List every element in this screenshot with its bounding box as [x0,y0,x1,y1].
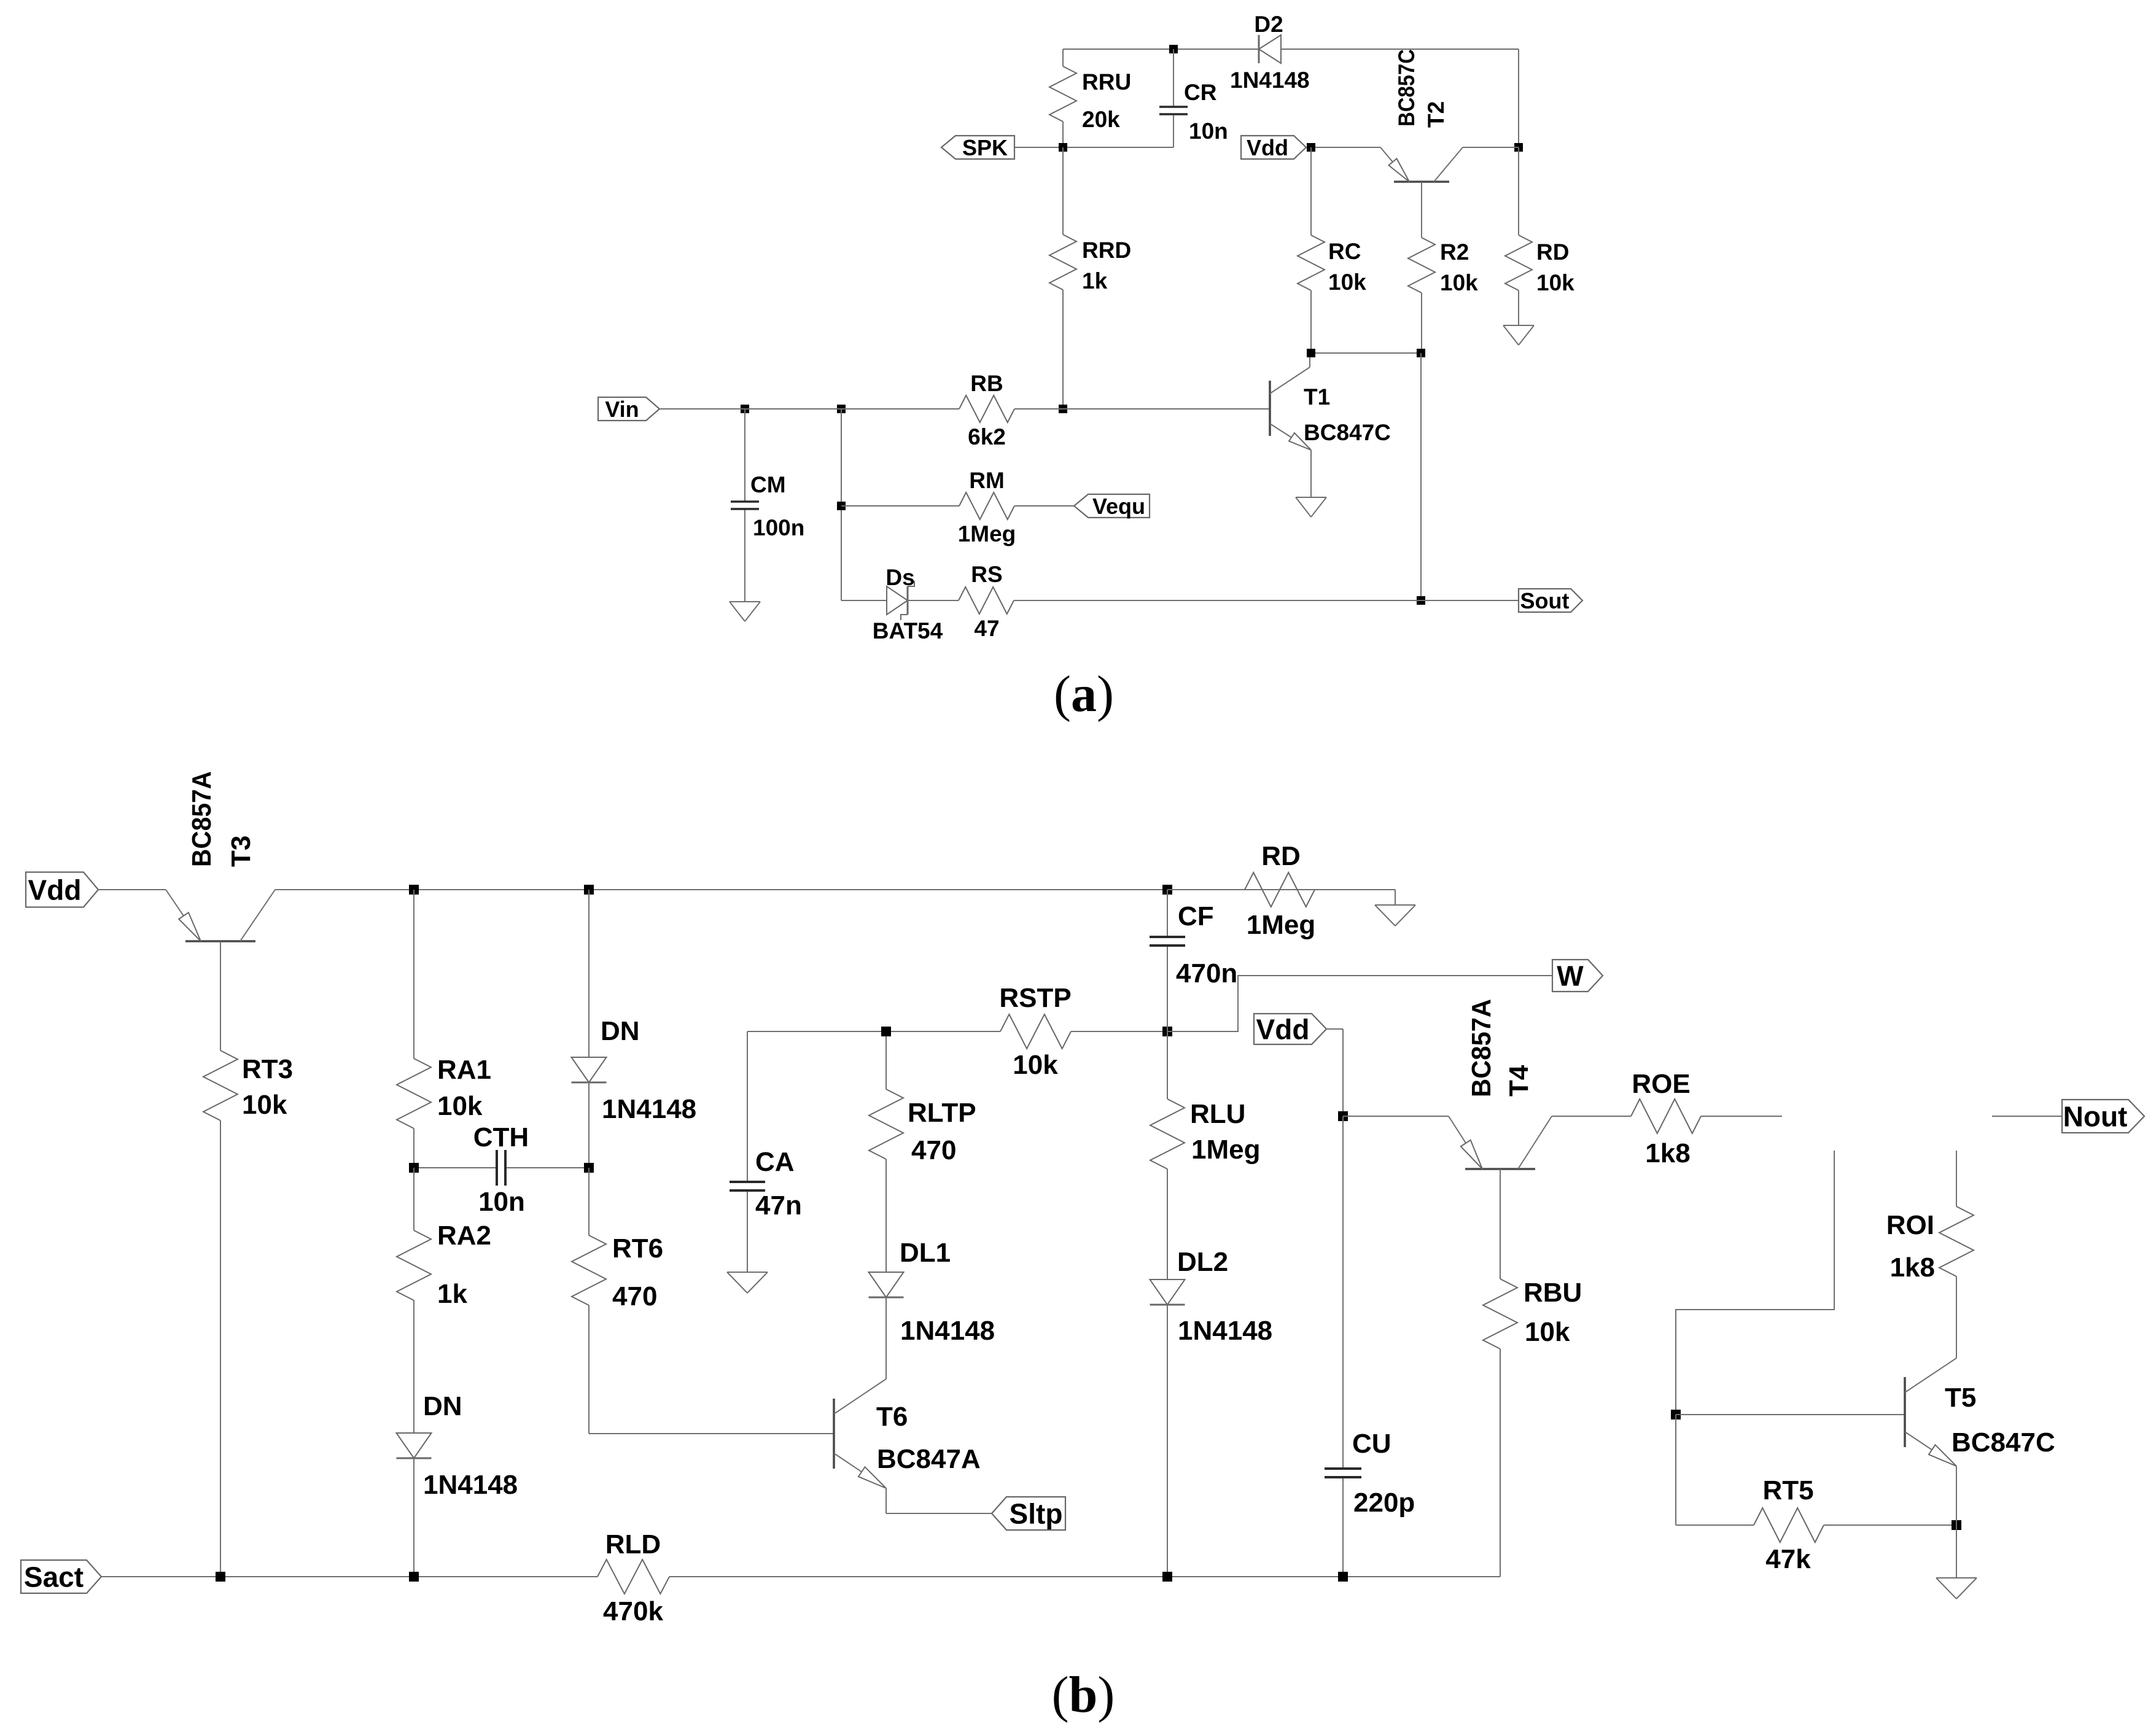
svg-text:RD: RD [1261,841,1301,871]
svg-text:470n: 470n [1176,958,1237,988]
svg-text:T2: T2 [1423,101,1449,128]
svg-text:(b): (b) [1052,1666,1115,1723]
svg-text:1k8: 1k8 [1645,1138,1690,1168]
svg-text:W: W [1557,960,1584,992]
svg-text:10k: 10k [1525,1317,1570,1347]
svg-text:Vin: Vin [605,397,639,422]
svg-text:1N4148: 1N4148 [1230,68,1310,93]
svg-text:6k2: 6k2 [968,424,1006,449]
svg-text:RRU: RRU [1082,69,1131,95]
svg-text:1N4148: 1N4148 [900,1316,995,1346]
svg-text:DL1: DL1 [900,1238,951,1268]
svg-text:Vdd: Vdd [1247,135,1288,160]
svg-text:47n: 47n [755,1190,802,1221]
svg-text:BC857A: BC857A [1466,999,1496,1097]
svg-text:RS: RS [971,562,1002,587]
svg-text:RB: RB [970,371,1003,396]
svg-text:T5: T5 [1945,1383,1976,1413]
svg-text:47k: 47k [1765,1544,1811,1574]
svg-text:RLD: RLD [605,1529,661,1559]
svg-text:Sact: Sact [24,1561,84,1593]
svg-text:R2: R2 [1440,239,1469,265]
svg-text:RSTP: RSTP [999,983,1071,1013]
svg-text:CR: CR [1184,80,1216,105]
svg-text:RC: RC [1328,239,1361,264]
svg-text:ROE: ROE [1632,1069,1690,1099]
svg-text:BC847A: BC847A [877,1444,981,1474]
svg-text:220p: 220p [1353,1488,1415,1518]
svg-text:BC857A: BC857A [187,771,217,867]
svg-text:RM: RM [969,468,1005,493]
svg-text:1k: 1k [437,1279,467,1309]
svg-text:DN: DN [423,1391,462,1421]
svg-text:10n: 10n [1189,118,1228,144]
svg-text:DN: DN [601,1016,640,1046]
svg-text:1Meg: 1Meg [1191,1135,1260,1165]
svg-text:RBU: RBU [1524,1278,1582,1308]
svg-text:1k8: 1k8 [1890,1252,1935,1283]
svg-text:RRD: RRD [1082,238,1131,263]
svg-text:RT3: RT3 [242,1054,293,1084]
svg-text:Sltp: Sltp [1010,1498,1063,1530]
svg-text:D2: D2 [1254,12,1283,37]
svg-text:Vdd: Vdd [28,874,82,906]
svg-text:470: 470 [911,1135,956,1165]
svg-text:10k: 10k [242,1090,287,1120]
svg-text:10k: 10k [1536,270,1574,295]
svg-text:RD: RD [1536,239,1569,265]
svg-text:470k: 470k [603,1596,663,1626]
svg-text:(a): (a) [1054,666,1114,723]
svg-text:Vdd: Vdd [1256,1014,1310,1046]
svg-text:RLU: RLU [1190,1099,1245,1129]
svg-text:470: 470 [612,1281,657,1311]
svg-text:1N4148: 1N4148 [602,1094,696,1124]
svg-text:DL2: DL2 [1177,1247,1228,1277]
svg-text:100n: 100n [753,515,804,540]
svg-text:10n: 10n [478,1187,525,1217]
svg-text:BC847C: BC847C [1952,1427,2055,1458]
svg-text:RA2: RA2 [437,1221,491,1251]
svg-text:SPK: SPK [962,135,1008,160]
svg-text:BC847C: BC847C [1304,420,1391,445]
svg-text:1Meg: 1Meg [1247,910,1315,940]
svg-text:RT6: RT6 [612,1233,663,1264]
svg-text:Nout: Nout [2063,1101,2128,1133]
svg-text:CF: CF [1178,901,1214,931]
svg-text:CTH: CTH [473,1122,529,1152]
svg-text:CM: CM [750,472,786,497]
svg-text:BC857C: BC857C [1394,49,1419,126]
svg-text:RA1: RA1 [437,1055,491,1085]
svg-text:ROI: ROI [1886,1210,1934,1240]
svg-text:T1: T1 [1304,384,1330,410]
svg-text:1N4148: 1N4148 [1178,1316,1272,1346]
svg-text:10k: 10k [1440,270,1478,295]
svg-text:1k: 1k [1082,268,1108,293]
svg-text:Vequ: Vequ [1092,494,1145,519]
svg-text:CU: CU [1352,1429,1391,1459]
svg-text:T6: T6 [876,1402,908,1432]
svg-text:20k: 20k [1082,107,1120,132]
svg-text:47: 47 [974,616,999,641]
svg-text:RT5: RT5 [1762,1475,1813,1505]
svg-text:T3: T3 [226,836,256,867]
svg-text:RLTP: RLTP [908,1098,976,1128]
svg-text:10k: 10k [1328,270,1366,295]
svg-text:T4: T4 [1504,1065,1534,1097]
svg-text:Sout: Sout [1520,588,1570,613]
svg-text:1Meg: 1Meg [958,521,1016,546]
svg-text:1N4148: 1N4148 [423,1470,518,1500]
svg-text:10k: 10k [1013,1050,1058,1080]
svg-text:Ds: Ds [885,565,914,590]
svg-text:CA: CA [755,1147,795,1177]
svg-text:BAT54: BAT54 [873,618,943,643]
svg-text:10k: 10k [437,1091,483,1121]
